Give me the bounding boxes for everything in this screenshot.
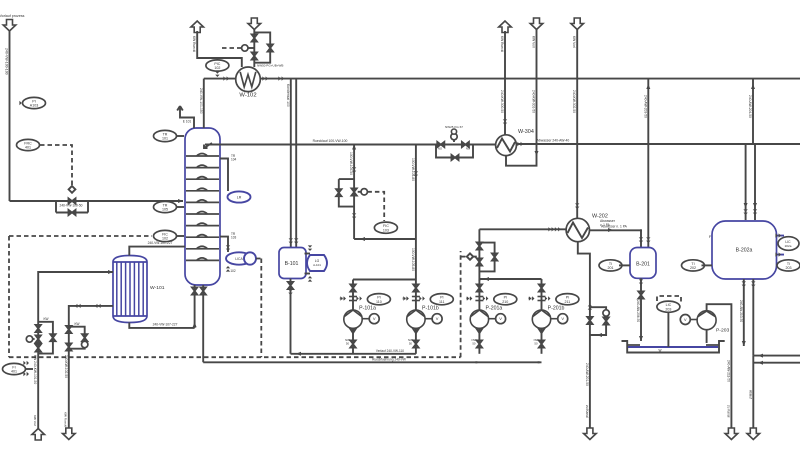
svg-text:P-201a: P-201a <box>486 306 503 312</box>
svg-text:240-VW-101-150: 240-VW-101-150 <box>199 88 203 114</box>
svg-text:E 101: E 101 <box>183 120 192 124</box>
wire KW return riser x=505 <box>504 31 506 135</box>
wire column bottoms left (to reboiler) <box>194 285 196 328</box>
vessel B-101 <box>279 248 306 279</box>
svg-text:P-101b: P-101b <box>422 306 439 312</box>
off-page connector bottom right (down) <box>747 428 760 440</box>
wire B-202a bottoms right <box>752 279 754 356</box>
svg-text:Vorlauf prozess: Vorlauf prozess <box>0 14 25 18</box>
svg-text:P-201b: P-201b <box>548 306 565 312</box>
svg-text:102: 102 <box>214 66 220 70</box>
svg-text:110: 110 <box>376 300 382 304</box>
svg-text:KW Rueckl: KW Rueckl <box>192 36 196 52</box>
svg-text:100-VW-103-50: 100-VW-103-50 <box>349 152 353 175</box>
wire B-202a feeds from mainline <box>739 143 741 145</box>
instrument PI P-201b <box>556 294 579 305</box>
svg-text:211: 211 <box>565 300 571 304</box>
svg-text:KW Rueckl: KW Rueckl <box>64 412 68 427</box>
svg-text:P-101a: P-101a <box>359 306 376 312</box>
svg-text:203: 203 <box>785 266 791 270</box>
abwasser inlet text bottom-left of tank <box>600 219 616 232</box>
instrument PI P-101b <box>430 294 453 305</box>
svg-text:111: 111 <box>439 300 445 304</box>
instrument PI A-103 <box>19 97 45 108</box>
svg-text:W-101: W-101 <box>150 285 165 291</box>
off-page connector KW supply bottom (up arrow) <box>32 415 45 440</box>
svg-text:NW50 PG+UB+WB: NW50 PG+UB+WB <box>257 64 283 68</box>
reboiler W-101 <box>113 256 165 323</box>
signal dashed bottom long horizontal <box>9 356 461 358</box>
svg-text:240-VW-101-227: 240-VW-101-227 <box>148 241 173 245</box>
bypass loop under valve <box>56 201 88 213</box>
control valve <box>351 188 357 195</box>
instrument TI left B-202a <box>682 260 713 271</box>
wire B-201 drain <box>640 278 642 341</box>
svg-text:Abwasser 240-AW-40: Abwasser 240-AW-40 <box>537 139 570 143</box>
wire W-202 outlet to B-201 <box>590 229 642 231</box>
control valve actuator diamond <box>69 186 76 193</box>
pump P-203 <box>680 311 729 343</box>
vapour line column top <box>203 79 205 128</box>
svg-text:Ablauf: Ablauf <box>748 390 752 399</box>
svg-text:203: 203 <box>665 307 671 311</box>
level gauge B-101 (blue) <box>305 245 328 281</box>
wire condenser outlet header (long top line) <box>260 78 800 80</box>
svg-text:Rueckfuehrung 240-VW: Rueckfuehrung 240-VW <box>372 357 406 361</box>
svg-text:W-304: W-304 <box>518 129 534 135</box>
svg-text:KW Vorl: KW Vorl <box>532 36 536 48</box>
suction header P-101 <box>353 279 416 281</box>
svg-text:KW: KW <box>43 317 48 321</box>
svg-text:A-101: A-101 <box>313 263 321 267</box>
off-page connector KW supply down <box>248 18 261 30</box>
wire long feed riser x=416.5 <box>415 145 417 280</box>
pump P-201b <box>528 280 568 354</box>
svg-text:LICA: LICA <box>235 257 243 261</box>
wire riser x=649.5 from top header <box>647 79 649 248</box>
wire P-203 discharge <box>707 304 732 428</box>
svg-text:240-KW-300-50: 240-KW-300-50 <box>500 90 504 113</box>
svg-text:401: 401 <box>11 370 17 374</box>
svg-text:50: 50 <box>472 342 476 346</box>
svg-text:50: 50 <box>534 342 538 346</box>
instrument FRC 401 <box>17 139 40 150</box>
instrument PI P-101a <box>367 294 390 305</box>
svg-text:Kondensat 100: Kondensat 100 <box>286 84 290 107</box>
off-page connector KW return bottom (down arrow) <box>63 412 76 440</box>
tray tap upper right <box>220 159 228 192</box>
svg-text:PIS: PIS <box>403 297 408 301</box>
svg-text:B-101: B-101 <box>285 261 299 267</box>
svg-text:240-AW-203-50: 240-AW-203-50 <box>643 95 647 118</box>
instrument PI P-201a <box>494 294 517 305</box>
wire mainline right of W-304 <box>516 143 800 145</box>
vessel B-202a <box>709 221 777 279</box>
wire feed line horizontal to column <box>10 200 184 202</box>
valve on drain <box>587 317 593 324</box>
pump P-201a <box>466 280 506 354</box>
signal dashed riser to FIC-201 valve <box>460 251 462 357</box>
svg-text:Ruecklauf 100-VW-100: Ruecklauf 100-VW-100 <box>313 139 348 143</box>
wire feed to W-202 <box>479 228 566 230</box>
signal dashes LICA <box>256 258 261 260</box>
svg-text:240-AW-211-50: 240-AW-211-50 <box>726 360 730 382</box>
vent line column top <box>177 106 194 128</box>
reflux arrow inside column top <box>204 143 212 148</box>
level instrument LICA 102 (blue) <box>226 245 256 273</box>
off-page connector feed top-left <box>0 14 25 31</box>
svg-text:103: 103 <box>383 228 389 232</box>
wire riser x=753 <box>752 79 754 144</box>
svg-text:240-VW-100-100: 240-VW-100-100 <box>5 48 9 75</box>
svg-text:PIS: PIS <box>528 297 533 301</box>
reflux main line y=144.5 <box>205 144 501 146</box>
bypass loop station <box>339 179 354 207</box>
svg-text:Verlauf 240-VW-110: Verlauf 240-VW-110 <box>376 349 404 353</box>
instrument FIC 102 <box>154 230 185 241</box>
off-page connector P-203 discharge (down) <box>725 428 738 440</box>
signal dashed horizontal to FIC <box>9 235 152 237</box>
svg-text:210: 210 <box>502 300 508 304</box>
svg-text:KW Vorl: KW Vorl <box>33 415 37 426</box>
svg-text:101: 101 <box>162 137 168 141</box>
svg-text:240-KW-301-50: 240-KW-301-50 <box>532 90 536 113</box>
svg-text:240-VW-100-50: 240-VW-100-50 <box>60 204 83 208</box>
svg-text:102: 102 <box>162 237 168 241</box>
svg-text:W-102: W-102 <box>239 93 256 99</box>
svg-text:LR: LR <box>237 196 242 200</box>
valve station KW supply <box>26 317 55 354</box>
svg-text:A103: A103 <box>30 104 38 108</box>
svg-text:50: 50 <box>346 342 350 346</box>
off-page connector KW return up <box>191 21 204 52</box>
svg-text:240-AW-210-50: 240-AW-210-50 <box>739 300 743 322</box>
svg-text:KW 240-KW-101-50: KW 240-KW-101-50 <box>33 355 37 384</box>
pump P-101a <box>340 280 380 354</box>
svg-text:240-AW-204-50: 240-AW-204-50 <box>748 95 752 118</box>
instrument TI B-201 <box>599 260 630 271</box>
svg-text:W: W <box>659 349 662 353</box>
svg-text:NW25 KG 67: NW25 KG 67 <box>445 125 463 129</box>
instrument TI right B-202a <box>777 260 800 271</box>
discharge header P-101 <box>291 353 416 355</box>
svg-text:P-203: P-203 <box>716 328 729 334</box>
wire final drain x=753.3 <box>752 356 754 429</box>
control valve V-100 <box>68 198 75 204</box>
wire feed line vertical <box>9 31 11 201</box>
signal line FRC to valve (dashed) <box>40 145 72 188</box>
svg-text:KW Vorl: KW Vorl <box>572 36 576 48</box>
instrument LIC 203 <box>657 296 681 347</box>
svg-text:202: 202 <box>690 266 696 270</box>
off-page connector bottom drain <box>584 428 597 440</box>
actuator circle <box>242 45 248 51</box>
wire second drop to B-101 <box>295 79 297 248</box>
svg-text:240-AW-201-50: 240-AW-201-50 <box>585 363 589 386</box>
wire column bottoms right (product) <box>202 285 204 362</box>
signal dashed LICA column line <box>260 259 262 358</box>
wire suction header P-201 <box>479 278 541 280</box>
off-page connector up (KW return W-304) <box>499 21 512 52</box>
column trays <box>186 154 219 157</box>
wire KW return <box>197 31 242 67</box>
vessel B-201 <box>630 248 656 279</box>
pump P-101b <box>403 280 443 354</box>
instrument FI bottom-left <box>3 361 34 376</box>
wire riser x=354 <box>353 145 355 240</box>
svg-text:KW: KW <box>74 322 79 326</box>
wire KW supply W-101 <box>38 272 113 429</box>
svg-text:240-KW-102-50: 240-KW-102-50 <box>64 355 68 378</box>
wire reboiler bottom outlet <box>129 323 194 328</box>
wire B-201 feed from W-202 <box>640 230 642 247</box>
svg-text:V: V <box>684 318 687 322</box>
control valve station mainline <box>436 125 473 160</box>
off-page connector down KW supply W-202 <box>571 18 584 48</box>
instrument PIC 102 <box>206 60 229 77</box>
bypass loop drain <box>590 307 606 335</box>
valve station KW return <box>66 322 88 351</box>
svg-text:240-KW-302-50: 240-KW-302-50 <box>572 90 576 113</box>
svg-text:PIS: PIS <box>340 297 345 301</box>
discharge header P-201 + bottoms line <box>203 361 541 363</box>
svg-text:v. 1 PA: v. 1 PA <box>600 223 611 227</box>
wire vapour to condenser <box>204 78 236 80</box>
svg-text:100-VW-104-80: 100-VW-104-80 <box>411 158 415 181</box>
svg-text:50: 50 <box>409 342 413 346</box>
wire B-202a bottoms left <box>743 279 745 346</box>
instrument TR 101 <box>154 130 185 141</box>
svg-text:KW Rueckl: KW Rueckl <box>500 36 504 52</box>
heat exchanger W-202 <box>566 214 608 242</box>
tray tap lower right <box>220 237 228 252</box>
wire bottom connect <box>354 238 416 240</box>
instrument FIC 103 <box>374 222 397 233</box>
svg-text:PIS: PIS <box>466 297 471 301</box>
wire KW drop to W-202 <box>576 30 578 219</box>
level instrument LR (blue) <box>228 191 251 202</box>
signal dashed PIC to valve <box>222 47 241 49</box>
wire KW return W-101 <box>69 306 113 428</box>
svg-text:240-VW-107-227: 240-VW-107-227 <box>153 323 178 327</box>
wire KW supply into condenser <box>253 30 255 68</box>
instrument TR 105 <box>154 201 185 212</box>
svg-text:202a: 202a <box>785 244 792 248</box>
signal dashed to FIC 103 <box>367 192 384 221</box>
svg-text:B-202a: B-202a <box>736 248 753 254</box>
svg-text:zu Kanal: zu Kanal <box>726 405 730 418</box>
svg-text:240-AW-206-50: 240-AW-206-50 <box>636 300 640 322</box>
svg-text:102: 102 <box>230 269 236 273</box>
wire P-201b drop <box>541 279 543 281</box>
wire right side stubs <box>753 355 800 357</box>
condenser W-102 <box>236 67 261 99</box>
B-101 drain to header <box>290 279 292 354</box>
level instrument LIC B-202a <box>775 233 799 256</box>
wire reboiler return to column <box>129 247 185 256</box>
svg-text:201: 201 <box>607 266 613 270</box>
bypass loop <box>479 243 494 272</box>
column K-101 shell <box>185 128 220 285</box>
svg-text:100-VW-105-80: 100-VW-105-80 <box>411 248 415 271</box>
off-page connector down KW supply W-304 <box>530 18 543 48</box>
svg-text:105: 105 <box>162 208 168 212</box>
svg-text:B-201: B-201 <box>636 262 650 268</box>
svg-text:103: 103 <box>231 236 237 240</box>
svg-text:104: 104 <box>231 158 237 162</box>
signal dashed line left vertical <box>8 236 10 357</box>
svg-text:zu Kanal: zu Kanal <box>585 405 589 418</box>
bypass loop KW supply <box>254 32 270 62</box>
wire W-202 bottoms down <box>578 242 590 429</box>
sump tank open trough <box>622 341 725 353</box>
wire drop to P-201 header <box>478 229 480 281</box>
wire KW supply to W-304 bottom <box>506 30 537 166</box>
actuator diamond FIC-201 <box>467 253 473 259</box>
feed arrow into column <box>178 199 183 203</box>
heat exchanger W-304 <box>496 129 534 156</box>
svg-text:401: 401 <box>25 146 31 150</box>
wire condensate drop <box>290 79 292 248</box>
